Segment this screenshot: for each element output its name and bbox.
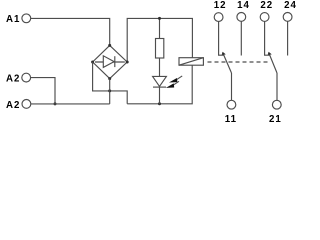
node dot bridge left [91,61,94,64]
terminal 22 [260,13,269,22]
wire bridge left vertex down and across [93,62,128,104]
wire bridge right vertex to top bus to coil [127,18,192,62]
wire contact 22 [265,21,271,55]
wire common 21 [276,73,278,100]
wire contact 12 [219,22,225,56]
resistor R1 [156,39,164,59]
diode D1 cathode bar [114,56,116,67]
node dot bridge bottom [108,77,111,80]
wire bottom bus to coil [127,65,192,104]
node dot bottom bus [158,102,161,105]
wire common 11 [231,73,233,100]
diode D1 wire [95,61,125,63]
terminal 21 [272,100,281,109]
relay coil diagonal [179,58,203,65]
blade arrow contact 1 [222,52,226,55]
LED triangle [153,76,167,86]
svg-text:A2: A2 [6,100,20,111]
svg-text:22: 22 [260,0,273,11]
wire resistor to LED to bottom bus [159,58,161,104]
node dot top bus [158,17,161,20]
wire A2 upper to join [31,78,55,104]
blade arrow contact 2 [268,52,272,55]
wire A1 to bridge top [31,18,110,45]
terminal 14 [237,13,246,22]
LED arrow 2 [166,81,179,88]
terminal 11 [227,100,236,109]
node dot bridge top [108,44,111,47]
diode D1 triangle [103,56,114,68]
wire resistor drop [159,18,161,38]
svg-text:24: 24 [284,0,297,11]
terminal 24 [283,13,292,22]
svg-text:12: 12 [214,0,227,11]
relay coil K1 [179,58,203,65]
wire A2 lower bus [31,103,110,105]
node dot bridge right [126,61,129,64]
terminal A1 [22,14,31,23]
switch blade contact 1 [223,53,232,73]
switch blade contact 2 [269,53,277,73]
bridge rectifier diamond [93,45,128,78]
svg-text:11: 11 [225,114,237,124]
svg-text:14: 14 [237,0,250,11]
wire contact 14 [240,21,242,55]
node dot A2 join [54,102,57,105]
svg-text:A1: A1 [6,14,20,25]
LED arrow 1 [169,76,182,83]
svg-text:21: 21 [269,114,282,124]
node dot crossing [108,89,111,92]
mechanical link dashed [208,61,271,63]
wire contact 24 [287,21,289,55]
LED cathode bar [153,86,166,88]
terminal 12 [214,13,223,22]
svg-text:A2: A2 [6,73,20,84]
terminal A2 upper [22,73,31,82]
terminal A2 lower [22,100,31,109]
wire bridge bottom vertex down [109,79,111,104]
